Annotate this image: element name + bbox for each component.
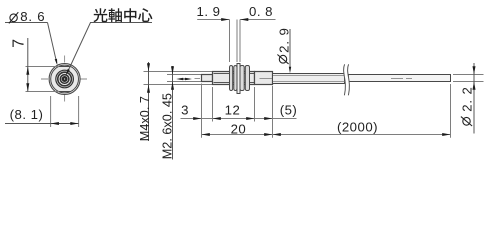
svg-text:20: 20: [231, 121, 247, 136]
hex nut 2 (side view): [240, 66, 244, 91]
svg-text:(5): (5): [280, 103, 298, 118]
center line vertical (front view): [64, 56, 66, 104]
svg-text:8. 6: 8. 6: [20, 9, 45, 24]
center line horizontal (front view): [41, 78, 89, 80]
label kougiku-chushin (optical axis center) kanji glyphs: [93, 8, 107, 22]
washer circle OD 8.6 (front view): [49, 64, 80, 95]
dimension line row 3 / 12 / (5): [181, 118, 297, 120]
fiber core circle (front view): [63, 77, 67, 81]
fiber cable 2.2 dia: [348, 75, 450, 82]
svg-text:2. 9: 2. 9: [277, 27, 292, 53]
spring washer (side view): [237, 64, 240, 94]
extension line at tip/thread step: [212, 87, 214, 122]
leader line for optical axis center label: [67, 23, 91, 74]
M2.6 tip circle (front view): [60, 75, 69, 84]
svg-text:M2. 6x0. 45: M2. 6x0. 45: [161, 93, 175, 159]
svg-text:0. 8: 0. 8: [249, 4, 273, 19]
2.9 dia protective tube: [273, 74, 345, 84]
extension line at tip front face: [201, 84, 203, 138]
hex nut 1 (side view): [230, 66, 233, 91]
dimension (8.1) extension line left: [50, 96, 52, 127]
hex nut flats (front view): [58, 66, 70, 68]
leader line for dia 8.6 label: [5, 22, 48, 24]
dia 2.2 extension lines: [453, 74, 484, 76]
dimension line M2.6x0.45: [172, 66, 174, 160]
rear boot cylinder (side view): [255, 72, 273, 85]
dimension (8.1) line with underline: [5, 123, 79, 125]
extension line at boot end: [272, 86, 274, 138]
svg-text:12: 12: [225, 103, 241, 118]
M2.6 threaded tip cylinder (side view): [202, 75, 213, 82]
dimension line 20 and (2000): [202, 134, 451, 136]
label dia 8.6: [10, 14, 17, 22]
extension line at thread end: [254, 87, 256, 122]
svg-text:(2000): (2000): [337, 120, 378, 135]
svg-text:1. 9: 1. 9: [197, 4, 221, 19]
extension lines for 1.9 and 0.8: [229, 20, 231, 63]
cable center line dashes: [391, 78, 403, 80]
M4 thread root circle (front view): [56, 70, 74, 88]
underline of optical axis label: [90, 22, 152, 24]
dimension (8.1) extension line right: [78, 96, 80, 127]
extension line at cable end: [450, 84, 452, 138]
dimension 7 extension line bottom: [26, 91, 60, 93]
dimension 7 extension line top: [26, 66, 60, 68]
dimension 1.9 line: [197, 19, 229, 21]
boot mid line: [260, 78, 273, 80]
dimension 7 line: [27, 38, 29, 92]
M4 threaded body (side view): [213, 72, 255, 85]
side view center line stub: [195, 78, 201, 80]
M2.6 tip extension lines to the left: [167, 74, 202, 76]
hex nut outline (front view, corners behind washer): [51, 65, 79, 93]
svg-text:3: 3: [181, 103, 189, 118]
label dia 2.2 rotated: [463, 117, 470, 125]
svg-text:M4x0. 7: M4x0. 7: [138, 96, 152, 141]
cable break symbol: [344, 64, 350, 95]
dimension line dia 2.2: [473, 63, 475, 134]
M4 thread extension lines to the left: [144, 71, 213, 73]
dimension 0.8 line: [240, 19, 276, 21]
thread crest lines: [214, 73, 255, 75]
label dia 2.9 rotated: [279, 55, 286, 63]
dia 2.9 leader line: [289, 29, 291, 71]
svg-text:(8. 1): (8. 1): [10, 107, 44, 122]
svg-text:7: 7: [11, 39, 28, 48]
M4 thread circle (front view): [58, 72, 72, 86]
svg-text:2. 2: 2. 2: [459, 86, 474, 112]
optical axis light direction arrows: [179, 78, 190, 80]
dimension line M4x0.7: [148, 62, 150, 141]
